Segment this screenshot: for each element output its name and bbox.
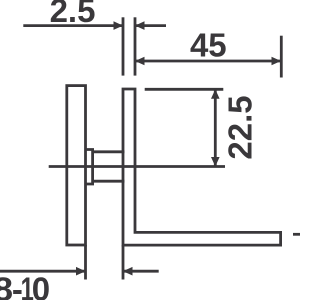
arrowhead 22.5 bottom (points down at y=166.5) (211, 157, 220, 167)
extension line right (2.5 dim) (134, 17, 137, 75)
dimension text 22.5 (rotated) (221, 95, 258, 159)
svg-text:22.5: 22.5 (221, 95, 258, 159)
arrowhead 8-10 left (points right at x=85.5) (76, 267, 86, 276)
arrowhead 45 right (points right at x=281) (272, 57, 282, 66)
edge-of-view extension dash (293, 233, 300, 236)
dimension line 2.5 left part (23, 24, 123, 27)
extension line left (2.5 dim) (122, 17, 125, 75)
dimension line 22.5 (214, 89, 217, 166)
dimension text 8-10 (0, 270, 50, 300)
dimension text 2.5 (50, 0, 96, 29)
svg-text:2.5: 2.5 (50, 0, 96, 29)
boss flange (86, 150, 93, 185)
stud bottom line (93, 180, 125, 183)
stud top line (93, 150, 125, 153)
arrowhead 45 left (points left at x=135) (135, 57, 145, 66)
L-profile leg and arm outline (123, 89, 281, 245)
arrowhead 22.5 top (points up at y=89.3) (211, 89, 220, 99)
leg left-edge extension line (8-10 dim) (122, 245, 125, 279)
svg-text:0: 0 (32, 270, 50, 300)
extension line top (22.5 dim) (145, 88, 224, 91)
dimension line 8-10 right part (123, 270, 159, 273)
arrowhead 8-10 right (points left at x=123) (123, 267, 133, 276)
dimension text 45 (190, 27, 227, 64)
arrowhead 2.5 left (points right at x=123) (114, 21, 124, 30)
dimension line 8-10 left part (0, 270, 86, 273)
extension line right end (45 dim) (280, 36, 283, 78)
screw centerline (49, 165, 225, 168)
dimension line 45 (135, 60, 281, 63)
wall plate right-edge extension line (8-10 dim) (84, 245, 87, 280)
wall plate (67, 86, 86, 245)
arrowhead 2.5 right (points left at x=135) (135, 21, 145, 30)
dimension line 2.5 right part (135, 24, 166, 27)
svg-text:45: 45 (190, 27, 227, 64)
